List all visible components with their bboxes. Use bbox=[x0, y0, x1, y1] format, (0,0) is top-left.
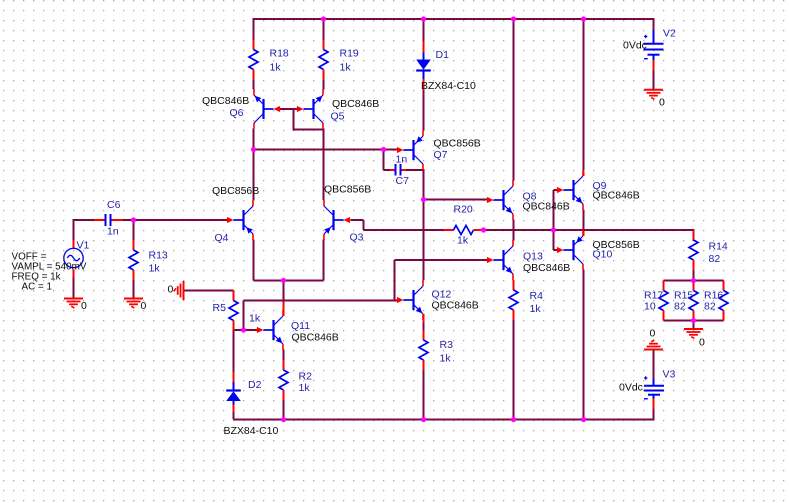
wire R4 bottom to bottom rail bbox=[513, 320, 515, 420]
wire parallel bank bottom bar bbox=[664, 320, 724, 322]
node Q7/Q8/Q12 bbox=[421, 197, 426, 202]
node Q6-collector tap bbox=[251, 147, 256, 152]
sine source V1 bbox=[64, 240, 83, 278]
wire R19 to Q5 emitter bbox=[323, 80, 325, 90]
wire R2 bottom to bottom rail bbox=[283, 400, 285, 420]
wire down to V1 plus bbox=[73, 219, 75, 241]
wire D2 anode to bottom rail bbox=[233, 411, 235, 420]
wire C6 to Q4 base bbox=[123, 219, 228, 221]
ground 0 under V1 bbox=[64, 299, 83, 309]
wire D1 anode from rail bbox=[423, 18, 425, 41]
extra red pin overlays bbox=[284, 172, 584, 324]
svg-text:0: 0 bbox=[699, 337, 705, 349]
node rail/Q8 bbox=[511, 16, 516, 21]
svg-text:QBC856B: QBC856B bbox=[434, 138, 481, 150]
wire V2 minus to ground bbox=[653, 70, 655, 90]
svg-text:R4: R4 bbox=[530, 290, 544, 302]
wire rail down to Q8 collector bbox=[513, 18, 515, 181]
wire Q9/Q10 base riser bbox=[553, 190, 555, 250]
transistor Q6 QBC846B (mirrored, emitter up) bbox=[254, 89, 280, 129]
transistor Q12 QBC846B bbox=[397, 280, 423, 320]
wire Q6 collector down to Q4 collector (node to Q7 base tap) bbox=[253, 129, 255, 201]
svg-text:Q11: Q11 bbox=[291, 320, 310, 332]
svg-text:R2: R2 bbox=[299, 371, 313, 383]
node R20 output bbox=[481, 227, 486, 232]
resistor R5 1k bbox=[229, 291, 238, 331]
wire R5/D2 junction down to D2 bbox=[233, 330, 235, 372]
svg-text:Q5: Q5 bbox=[331, 111, 345, 123]
transistor Q9 QBC846B bbox=[557, 170, 583, 210]
capacitor C6 1n bbox=[94, 214, 123, 226]
wire bank node down to ground bbox=[693, 321, 695, 329]
svg-text:D2: D2 bbox=[248, 379, 262, 391]
transistor Q11 QBC846B bbox=[257, 310, 283, 350]
wire Q3 emitter down to tail node bbox=[323, 240, 325, 281]
resistor R3 1k bbox=[419, 330, 428, 370]
Q10 emitter pin red bbox=[583, 231, 585, 237]
wire Q4 emitter down to tail node bbox=[253, 240, 255, 281]
node bank bottom bbox=[691, 318, 696, 323]
svg-text:R13: R13 bbox=[149, 250, 168, 262]
svg-text:1k: 1k bbox=[249, 313, 261, 325]
svg-text:R20: R20 bbox=[454, 204, 473, 216]
wire top supply rail bbox=[253, 18, 654, 20]
zener diode D1 BZX84-C10 bbox=[416, 41, 431, 90]
svg-text:1k: 1k bbox=[299, 382, 311, 394]
svg-text:0: 0 bbox=[168, 284, 174, 296]
wire Q6 base to Q5 base bbox=[280, 108, 298, 110]
wire V3 top to flipped ground bbox=[653, 350, 655, 380]
capacitor C7 1n bbox=[390, 164, 406, 176]
wire riser to Q10 base bbox=[554, 249, 558, 251]
resistor R19 1k bbox=[319, 40, 328, 80]
transistor Q5 QBC846B (emitter up) bbox=[297, 89, 323, 129]
wire R3 bottom to bottom rail bbox=[423, 370, 425, 420]
svg-text:Q13: Q13 bbox=[523, 251, 543, 263]
transistor Q10 QBC856B (pnp) bbox=[557, 230, 583, 270]
svg-text:QBC846B: QBC846B bbox=[202, 95, 249, 107]
wire Q13 base riser bbox=[394, 260, 396, 301]
node rail/D1 bbox=[421, 16, 426, 21]
wire Q13 base from riser bbox=[395, 259, 488, 261]
wire R5 bottom corner to Q11 base node bbox=[234, 329, 244, 330]
wire bias line to Q12 base bbox=[244, 300, 398, 302]
transistor Q7 QBC856B (pnp) bbox=[397, 130, 423, 170]
wire V1 minus to ground bbox=[73, 278, 75, 299]
node rail/Q9 bbox=[581, 16, 586, 21]
transistor Q13 QBC846B bbox=[487, 240, 513, 280]
svg-text:0: 0 bbox=[141, 300, 147, 312]
resistor R14 82 bbox=[689, 230, 698, 270]
ground 0 under resistor bank bbox=[684, 329, 703, 339]
wire Q8 emitter to Q13 collector bbox=[513, 220, 515, 241]
wire tail crossbar bbox=[254, 280, 324, 282]
svg-text:1k: 1k bbox=[530, 303, 542, 315]
node bottom rail/R4 bbox=[511, 417, 516, 422]
wire D1 cathode down to Q7 emitter bbox=[423, 89, 425, 131]
wire Q3 base over and down to R20 bbox=[351, 220, 445, 230]
svg-text:QBC856B: QBC856B bbox=[324, 184, 371, 196]
node C7/Q7 base bbox=[381, 147, 386, 152]
wire output corner down to R14 bbox=[693, 229, 695, 241]
wire bottom rail corner up to V3 bbox=[653, 409, 655, 420]
wire Q11 base node to Q11 base arrow bbox=[244, 329, 258, 331]
svg-text:C6: C6 bbox=[107, 199, 121, 211]
wire rail to R19 bbox=[323, 18, 325, 40]
wire Q10 collector to bottom rail bbox=[583, 270, 585, 420]
svg-text:C7: C7 bbox=[396, 175, 410, 187]
svg-text:0Vdc: 0Vdc bbox=[619, 382, 643, 394]
wire tail node down to Q11 collector bbox=[283, 281, 285, 303]
wire riser to Q9 base bbox=[554, 189, 558, 191]
svg-text:QBC856B: QBC856B bbox=[212, 185, 259, 197]
svg-text:Q4: Q4 bbox=[215, 232, 229, 244]
Q11 collector pin red bbox=[283, 302, 285, 317]
svg-text:Q6: Q6 bbox=[230, 107, 244, 119]
svg-text:R5: R5 bbox=[213, 302, 227, 314]
svg-text:Q3: Q3 bbox=[350, 232, 364, 244]
resistor R4 1k bbox=[509, 280, 518, 320]
wire C7 left plate up to Q7 base wire bbox=[384, 149, 391, 171]
svg-text:V2: V2 bbox=[663, 28, 676, 40]
node bottom rail/Q10 bbox=[581, 417, 586, 422]
Q9 collector pin red bbox=[583, 172, 585, 177]
svg-text:R18: R18 bbox=[270, 48, 289, 60]
ground 0 above V3 (flipped) bbox=[644, 340, 663, 350]
svg-text:BZX84-C10: BZX84-C10 bbox=[421, 80, 476, 92]
resistor R2 1k bbox=[279, 360, 288, 400]
wire parallel bank top bar bbox=[664, 280, 724, 282]
svg-text:82: 82 bbox=[704, 301, 716, 313]
wire net 0 bar to R5 bbox=[184, 290, 234, 292]
svg-text:0: 0 bbox=[81, 300, 87, 312]
resistor R16 82 bbox=[719, 281, 728, 321]
wire C7 right plate to Q7 emitter column bbox=[406, 169, 424, 171]
wire V1 to C6 bbox=[73, 219, 95, 221]
svg-text:QBC846B: QBC846B bbox=[523, 262, 570, 274]
wire Q5 collector down to Q3 collector bbox=[323, 129, 325, 201]
svg-text:BZX84-C10: BZX84-C10 bbox=[224, 425, 279, 437]
Q12 emitter pin red bbox=[423, 314, 425, 323]
svg-text:QBC846B: QBC846B bbox=[523, 201, 570, 213]
node bottom rail/R2 bbox=[281, 417, 286, 422]
wire bottom rail bbox=[234, 419, 654, 421]
node C6/R13 bbox=[131, 217, 136, 222]
DC source V3 0Vdc (battery) bbox=[644, 376, 664, 409]
svg-text:QBC846B: QBC846B bbox=[593, 190, 640, 202]
zener diode D2 BZX84-C10 bbox=[226, 372, 241, 412]
svg-text:D1: D1 bbox=[436, 49, 450, 61]
svg-text:0Vdc: 0Vdc bbox=[623, 40, 647, 52]
svg-text:R14: R14 bbox=[709, 241, 728, 253]
ground 0 net stub left (rotated) bbox=[174, 281, 184, 300]
wire R14 bottom to parallel bank node bbox=[693, 270, 695, 281]
wire rail to R18 bbox=[253, 18, 255, 40]
svg-text:1k: 1k bbox=[149, 263, 161, 275]
node bottom rail/R3 bbox=[421, 417, 426, 422]
svg-text:QBC846B: QBC846B bbox=[292, 332, 339, 344]
svg-text:R3: R3 bbox=[440, 339, 454, 351]
resistor R17 10 bbox=[659, 281, 668, 321]
svg-text:1k: 1k bbox=[340, 62, 352, 74]
transistor Q3 QBC856B (pnp, mirrored, emitter down) bbox=[324, 200, 350, 240]
resistor R18 1k bbox=[249, 40, 258, 80]
svg-text:AC = 1: AC = 1 bbox=[22, 282, 53, 293]
svg-text:R19: R19 bbox=[340, 48, 359, 60]
wire Q9 emitter to output line bbox=[583, 210, 585, 231]
node R14/bank top bbox=[691, 278, 696, 283]
resistor R15 82 bbox=[689, 281, 698, 321]
wire bias riser to Q11 base node bbox=[243, 301, 245, 331]
node rail/R19 bbox=[321, 16, 326, 21]
svg-text:Q7: Q7 bbox=[434, 149, 448, 161]
node LTP tail bbox=[281, 278, 286, 283]
wire rail down to Q9 collector bbox=[583, 18, 585, 171]
wire Q11 emitter to R2 bbox=[283, 350, 285, 361]
resistor R20 1k horizontal bbox=[444, 226, 484, 235]
svg-text:1k: 1k bbox=[440, 353, 452, 365]
resistor R13 1k bbox=[129, 240, 138, 280]
svg-text:QBC846B: QBC846B bbox=[432, 300, 479, 312]
transistor Q8 QBC846B bbox=[487, 180, 513, 220]
wire R18 to Q6 emitter bbox=[253, 80, 255, 90]
svg-text:0: 0 bbox=[659, 97, 665, 109]
ground 0 under V2 bbox=[644, 90, 663, 100]
ground 0 under R13 bbox=[124, 299, 143, 309]
DC source V2 0Vdc (battery) bbox=[644, 30, 664, 71]
wire R13 bottom to ground bbox=[133, 280, 135, 299]
wire rail corner to V2 plus bbox=[653, 19, 654, 30]
wire node B to Q8 base bbox=[423, 199, 488, 201]
svg-text:V3: V3 bbox=[663, 369, 676, 381]
svg-text:1n: 1n bbox=[396, 154, 408, 166]
wire R20 output line to R14 bbox=[484, 229, 694, 231]
svg-text:82: 82 bbox=[674, 301, 686, 313]
node Q11 base bbox=[241, 327, 246, 332]
svg-text:QBC846B: QBC846B bbox=[332, 98, 379, 110]
wire node at Q6/Q4 column to Q7 base bbox=[254, 149, 398, 151]
svg-text:Q10: Q10 bbox=[593, 249, 613, 261]
wire Q7 collector down to Q12 collector, node B bbox=[423, 169, 425, 280]
transistor Q4 QBC856B (pnp, emitter down) bbox=[227, 200, 253, 240]
svg-text:1k: 1k bbox=[457, 235, 469, 247]
wire node A down to R13 bbox=[133, 219, 135, 241]
svg-text:V1: V1 bbox=[77, 240, 90, 252]
svg-text:1k: 1k bbox=[270, 62, 282, 74]
svg-text:10: 10 bbox=[644, 301, 656, 313]
wire Q5 base to Q5 collector column bbox=[293, 109, 324, 130]
node output/driver bases bbox=[551, 227, 556, 232]
wire Q12 emitter to R3 bbox=[423, 320, 425, 331]
svg-text:82: 82 bbox=[709, 253, 721, 265]
svg-text:1n: 1n bbox=[107, 226, 119, 238]
svg-text:0: 0 bbox=[650, 328, 656, 340]
